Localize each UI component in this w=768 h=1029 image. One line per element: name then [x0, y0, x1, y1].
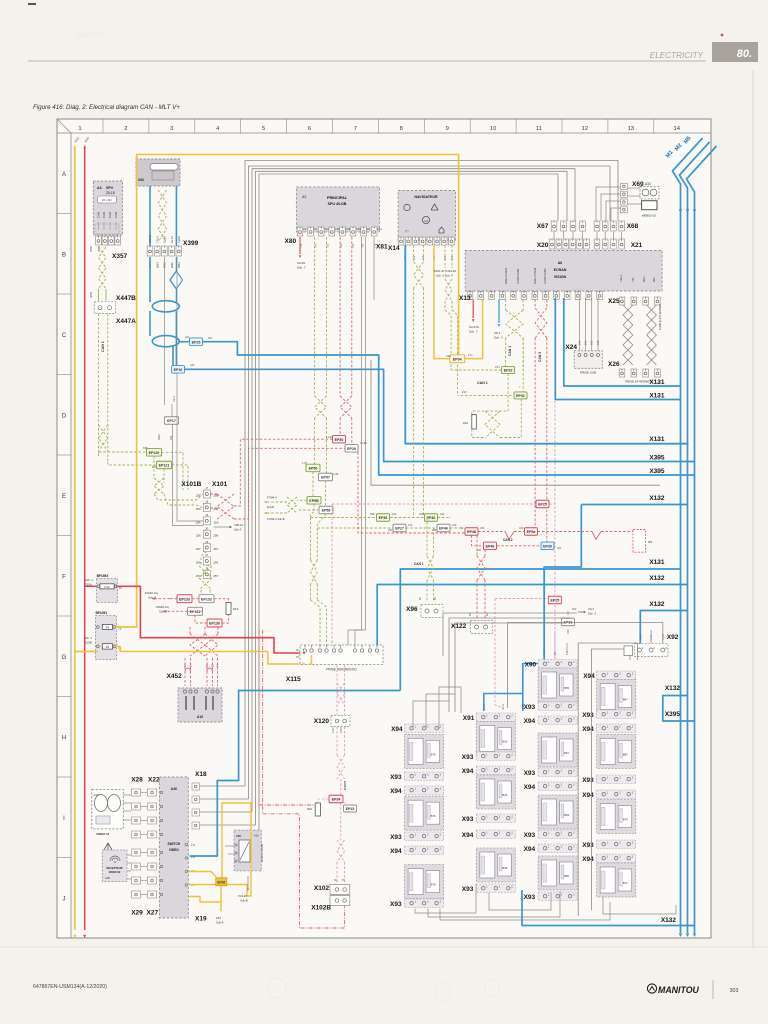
svg-text:B76: B76: [431, 814, 436, 818]
wire blue X132 upper route: [581, 504, 687, 506]
wire yellow through X65: [250, 832, 252, 869]
svg-text:B66: B66: [564, 874, 569, 878]
wire blue X395 route upper: [172, 347, 174, 366]
connector X21: [594, 239, 600, 249]
svg-text:Sch. 1: Sch. 1: [84, 636, 92, 640]
svg-text:EP133: EP133: [179, 597, 190, 601]
arrow K2-66: [299, 237, 301, 254]
svg-text:A6: A6: [558, 261, 563, 265]
monitor X65: [234, 830, 261, 871]
wire blue X132 from X92: [640, 611, 687, 645]
arrow blue X8-1: [498, 300, 500, 324]
svg-text:Sch. 8: Sch. 8: [148, 596, 156, 600]
svg-text:179: 179: [655, 497, 660, 501]
svg-text:B64: B64: [564, 813, 569, 817]
splice EP23p: [548, 596, 561, 604]
svg-text:X92: X92: [667, 634, 679, 641]
wire red into prise: [303, 652, 305, 654]
ECU A2 PRINCIPAL SPU 40-DB: [296, 187, 379, 232]
svg-text:3642: 3642: [157, 434, 161, 440]
svg-text:X22: X22: [148, 777, 160, 784]
svg-text:C18: C18: [345, 227, 350, 231]
svg-text:9: 9: [446, 126, 449, 132]
wire red from F44 to X115: [85, 585, 97, 587]
splice EP30b: [541, 542, 554, 550]
svg-text:A2: A2: [302, 195, 306, 199]
wires X67 to X20: [553, 231, 555, 239]
svg-text:X8-1: X8-1: [494, 331, 501, 335]
svg-text:EP25: EP25: [538, 503, 547, 507]
svg-text:K2-66: K2-66: [297, 261, 305, 265]
svg-text:EP23: EP23: [346, 807, 355, 811]
svg-text:A30: A30: [105, 876, 110, 880]
svg-text:WEB02-G2: WEB02-G2: [642, 214, 657, 218]
svg-text:6: 6: [308, 126, 311, 132]
svg-text:X132: X132: [665, 685, 681, 692]
svg-text:240: 240: [462, 390, 467, 394]
ECU A3 SPV 25-15: [93, 181, 122, 235]
connector X20: [549, 239, 555, 249]
svg-text:173: 173: [655, 395, 660, 399]
terminator R5: [633, 530, 646, 553]
svg-text:216: 216: [655, 438, 660, 442]
svg-text:Sch. 7: Sch. 7: [469, 330, 478, 334]
svg-text:X94: X94: [390, 788, 402, 795]
splice EP17: [165, 417, 179, 425]
connector X96: [421, 605, 443, 618]
svg-text:164: 164: [169, 435, 173, 440]
svg-text:257: 257: [196, 574, 201, 578]
svg-text:X204A-CA: X204A-CA: [145, 591, 158, 595]
svg-text:YD-: YD-: [631, 277, 635, 282]
svg-text:X68: X68: [627, 223, 639, 230]
gray interconnects relay bottom: [415, 884, 476, 913]
svg-text:20 ohm: 20 ohm: [102, 198, 113, 202]
svg-text:257: 257: [196, 547, 201, 551]
splice EP58: [319, 506, 333, 514]
svg-text:CAN: CAN: [108, 212, 112, 218]
svg-text:F9: F9: [106, 626, 110, 630]
svg-text:256: 256: [196, 534, 201, 538]
svg-text:X204A-CA: X204A-CA: [156, 605, 169, 609]
wire pink dash-dot harness pair: [258, 630, 260, 805]
svg-text:11: 11: [536, 126, 542, 132]
svg-text:Sch. 3: Sch. 3: [588, 612, 596, 616]
wires A6 to X24: [578, 298, 580, 351]
svg-text:Sch. 8: Sch. 8: [159, 610, 167, 614]
svg-text:164-2: 164-2: [173, 395, 176, 402]
wire green pair down to X96: [426, 518, 428, 557]
svg-text:X93: X93: [582, 842, 594, 849]
svg-text:7: 7: [354, 126, 357, 132]
svg-text:X93: X93: [524, 832, 536, 839]
svg-text:27A2: 27A2: [340, 727, 343, 733]
wires EP cluster to X101B: [162, 452, 184, 490]
svg-text:10: 10: [490, 126, 496, 132]
svg-text:EP57: EP57: [321, 476, 330, 480]
svg-text:X7344-4: X7344-4: [267, 496, 277, 500]
svg-text:4-34: 4-34: [650, 635, 653, 640]
wire gray parallel below blue: [371, 360, 660, 485]
svg-text:732: 732: [326, 243, 330, 248]
svg-text:RA6: RA6: [307, 807, 313, 811]
svg-text:X94: X94: [462, 832, 474, 839]
svg-text:CAN: CAN: [114, 212, 118, 218]
svg-text:X29: X29: [131, 910, 143, 917]
svg-text:CAN 2: CAN 2: [503, 538, 513, 542]
terminator RA6: [315, 803, 320, 816]
wire red pair down to X122: [476, 535, 478, 556]
gray wrap around relay column D: [578, 643, 637, 916]
svg-text:722: 722: [314, 243, 318, 248]
svg-text:12: 12: [582, 126, 588, 132]
wire blue X131 long line: [400, 569, 680, 691]
svg-text:1-196: 1-196: [360, 441, 367, 445]
svg-text:X93: X93: [390, 774, 402, 781]
connector X68: [594, 221, 600, 231]
svg-text:X102B: X102B: [311, 905, 331, 912]
svg-text:X94: X94: [582, 726, 594, 733]
svg-text:C: C: [62, 333, 67, 339]
svg-text:RD-: RD-: [652, 277, 656, 282]
relay column C: [538, 660, 577, 669]
svg-text:EP32: EP32: [504, 369, 513, 373]
svg-text:3059: 3059: [89, 291, 93, 298]
connector X25 pin row: [619, 297, 625, 305]
svg-text:B29: B29: [502, 793, 507, 797]
svg-text:SWITCH: SWITCH: [168, 842, 181, 846]
svg-text:B65: B65: [564, 686, 569, 690]
camera A32 VIDEO 01: [92, 789, 124, 829]
svg-text:AM: AM: [424, 219, 429, 223]
splice EP25: [536, 500, 549, 508]
svg-text:K101-37 K101-42: K101-37 K101-42: [434, 269, 456, 273]
svg-text:196: 196: [446, 354, 451, 358]
svg-text:C16: C16: [335, 227, 340, 231]
svg-text:RA4: RA4: [463, 421, 469, 425]
connector X92: [635, 644, 668, 657]
svg-text:EP34: EP34: [332, 798, 341, 802]
shield ellipse 2: [152, 336, 179, 347]
svg-text:X94: X94: [462, 768, 474, 775]
svg-text:X94: X94: [524, 784, 536, 791]
splice EP34: [329, 795, 343, 803]
splice EP40: [425, 514, 438, 522]
connector X24 PRISE USB: [574, 351, 602, 369]
svg-text:Figure 416: Diag. 2: Electrica: Figure 416: Diag. 2: Electrical diagram …: [33, 104, 180, 111]
svg-text:Sub-4: Sub-4: [216, 921, 224, 925]
svg-text:CAN 5: CAN 5: [343, 781, 347, 790]
svg-text:4-74: 4-74: [483, 704, 486, 709]
splice EP46: [437, 524, 450, 532]
arrow X7344-4: [297, 499, 307, 501]
svg-text:F51: F51: [216, 916, 221, 920]
gray video bus wires: [245, 161, 618, 787]
svg-text:429: 429: [655, 603, 660, 607]
svg-text:ELECTRICITY: ELECTRICITY: [650, 51, 704, 60]
wires gray X65: [225, 845, 234, 847]
svg-text:X93: X93: [390, 834, 402, 841]
svg-text:VIDEO 01: VIDEO 01: [96, 832, 110, 836]
svg-text:X93: X93: [462, 754, 474, 761]
svg-text:1-98: 1-98: [333, 472, 339, 476]
svg-text:104: 104: [392, 512, 397, 516]
svg-text:SPU 40-DB: SPU 40-DB: [328, 202, 347, 206]
wire green pair from X66: [158, 190, 166, 216]
wire gray from X92 to X91: [508, 623, 663, 709]
svg-text:191: 191: [583, 340, 587, 345]
svg-text:E: E: [62, 494, 66, 500]
footer page number: [712, 980, 714, 999]
terminator RA4 network: [472, 374, 508, 415]
svg-text:EP121: EP121: [159, 464, 170, 468]
svg-text:X93: X93: [390, 901, 402, 908]
svg-text:BFUM1: BFUM1: [96, 611, 108, 615]
svg-text:8: 8: [400, 126, 403, 132]
svg-text:X93: X93: [582, 712, 594, 719]
svg-text:EP29: EP29: [347, 447, 356, 451]
svg-text:X94: X94: [390, 848, 402, 855]
svg-text:J: J: [63, 897, 66, 903]
resistor R19: [226, 602, 231, 614]
svg-text:CAN 1: CAN 1: [477, 381, 488, 385]
splice EP26: [216, 878, 227, 886]
splice EP56: [306, 464, 320, 472]
scan corner mark: [28, 3, 36, 5]
svg-text:C10: C10: [324, 227, 329, 231]
splice EP36: [377, 514, 390, 522]
wire blue video feed: [190, 691, 401, 857]
wire blue X131 line A: [564, 298, 681, 386]
svg-text:D: D: [62, 414, 67, 420]
svg-text:C2: C2: [314, 227, 318, 231]
svg-text:EP15: EP15: [192, 340, 201, 344]
svg-text:X7344-3 Sub-B: X7344-3 Sub-B: [267, 517, 285, 521]
svg-text:X1200: X1200: [84, 641, 93, 645]
wire yellow from F6 to X115: [75, 651, 98, 653]
svg-text:SPV: SPV: [106, 186, 114, 190]
svg-text:EP30: EP30: [543, 544, 552, 548]
wire blue pair below X399 with twist: [149, 257, 151, 302]
svg-text:15A: 15A: [214, 520, 219, 524]
svg-text:103: 103: [408, 523, 413, 527]
svg-text:4-15: 4-15: [522, 704, 525, 709]
svg-text:EP46: EP46: [486, 544, 495, 548]
svg-text:838: 838: [143, 446, 148, 450]
svg-text:EP56: EP56: [309, 467, 318, 471]
svg-text:256: 256: [196, 561, 201, 565]
svg-text:X27: X27: [147, 910, 159, 917]
svg-text:947: 947: [655, 470, 660, 474]
svg-text:X357: X357: [112, 253, 128, 260]
splice EP33: [562, 618, 575, 626]
svg-text:BFUM3: BFUM3: [97, 574, 109, 578]
svg-text:X395: X395: [665, 711, 681, 718]
svg-text:EP132: EP132: [201, 597, 212, 601]
splice EP57: [319, 473, 333, 481]
svg-text:B78: B78: [431, 883, 436, 887]
wire green CAN1 pair from X357: [99, 247, 107, 268]
svg-text:303: 303: [730, 988, 739, 994]
svg-text:LOW CAN1: LOW CAN1: [516, 268, 520, 284]
svg-text:X101B: X101B: [181, 481, 201, 488]
scan watermark circles: [268, 978, 286, 998]
svg-text:EP31: EP31: [516, 394, 525, 398]
svg-text:433: 433: [655, 561, 660, 565]
connector X399: [147, 246, 153, 256]
svg-text:VIDEO 02: VIDEO 02: [109, 870, 121, 874]
svg-text:X93: X93: [524, 894, 536, 901]
wires video to X28: [123, 794, 131, 796]
svg-text:13: 13: [628, 126, 634, 132]
page tab 80: [712, 42, 758, 62]
wire blue X132 long line: [377, 585, 687, 646]
svg-text:A33: A33: [645, 182, 651, 186]
column band diagonal cell: [57, 119, 71, 133]
svg-text:HIGH CAN1: HIGH CAN1: [504, 267, 508, 284]
wire blue bottom X132: [522, 890, 695, 926]
svg-text:K2-67a: K2-67a: [469, 325, 479, 329]
svg-text:X447A: X447A: [116, 318, 136, 325]
wire pink dashed row E: [332, 503, 536, 505]
svg-text:F6: F6: [106, 645, 110, 649]
svg-text:X66: X66: [138, 178, 144, 182]
svg-text:X81: X81: [376, 244, 388, 251]
wire red supply vertical: [84, 146, 86, 930]
svg-text:X447B: X447B: [116, 295, 136, 302]
wire blue X90 drop: [543, 567, 545, 660]
svg-text:104: 104: [495, 365, 500, 369]
splice EP23: [344, 805, 357, 812]
svg-text:SHLD: SHLD: [177, 236, 181, 243]
svg-text:X90: X90: [525, 662, 537, 669]
svg-text:X93: X93: [462, 886, 474, 893]
svg-text:A36: A36: [171, 787, 177, 791]
svg-text:Sch-3: Sch-3: [234, 528, 242, 532]
connector X122: [471, 621, 493, 634]
gray interconnects relay top: [413, 701, 449, 729]
svg-text:X18: X18: [195, 771, 207, 778]
svg-text:3051: 3051: [97, 245, 101, 252]
svg-text:X122: X122: [451, 623, 467, 630]
svg-text:X120: X120: [314, 718, 330, 725]
connector X67: [551, 221, 557, 231]
wire red dashed CAN2 upper: [358, 452, 465, 533]
svg-text:B: B: [62, 253, 66, 259]
svg-text:192: 192: [590, 340, 594, 345]
svg-text:943: 943: [655, 457, 660, 461]
svg-text:Sub-B: Sub-B: [240, 899, 248, 903]
splice EP131: [188, 607, 203, 615]
svg-text:305: 305: [432, 528, 437, 532]
svg-text:X94: X94: [524, 846, 536, 853]
wire pink X90 pin2: [554, 634, 556, 659]
wire yellow supply vertical: [74, 146, 76, 930]
splice EP29: [345, 445, 358, 453]
svg-text:1: 1: [78, 126, 81, 132]
wire red dashed CAN2 lower: [472, 535, 484, 546]
wires pink down to X452: [190, 634, 205, 656]
svg-text:400: 400: [519, 526, 524, 530]
wires yellow video loops: [189, 872, 216, 878]
svg-text:647867EN-USM134(A-12/2020): 647867EN-USM134(A-12/2020): [33, 984, 107, 990]
svg-text:B79: B79: [623, 818, 628, 822]
wire blue M1 M2 M5 risers: [673, 138, 703, 933]
svg-text:YEL1: YEL1: [619, 274, 623, 282]
paper edge shadow: [752, 70, 754, 948]
svg-text:X93: X93: [582, 777, 594, 784]
svg-text:R5: R5: [648, 540, 652, 544]
svg-text:VISION: VISION: [554, 275, 567, 279]
svg-text:341: 341: [185, 335, 190, 339]
svg-text:K16: K16: [254, 834, 259, 838]
svg-text:CAN L: CAN L: [155, 235, 159, 243]
svg-text:103: 103: [452, 523, 457, 527]
svg-text:B45: B45: [502, 740, 507, 744]
svg-text:HIGH CAN2: HIGH CAN2: [533, 267, 537, 284]
svg-text:A32: A32: [94, 793, 100, 797]
svg-text:X9-1: X9-1: [588, 607, 594, 611]
svg-text:193: 193: [596, 340, 600, 345]
svg-text:LOW CAN2: LOW CAN2: [543, 268, 547, 284]
svg-text:PRISE DIAGNOSTIC: PRISE DIAGNOSTIC: [326, 668, 357, 672]
svg-text:C13: C13: [377, 227, 382, 231]
wire green horizontal upper: [311, 517, 377, 519]
svg-text:B71: B71: [623, 881, 628, 885]
svg-text:X94: X94: [582, 792, 594, 799]
arrow X28-21: [214, 526, 231, 528]
svg-text:PRINCIPAL: PRINCIPAL: [327, 196, 348, 200]
svg-text:X80: X80: [285, 238, 297, 245]
svg-text:CABLE ETHERNET: CABLE ETHERNET: [658, 303, 662, 330]
svg-text:X14: X14: [388, 245, 400, 252]
wire blue X395 route lower: [179, 341, 190, 343]
svg-text:3646: 3646: [170, 262, 174, 268]
svg-text:EP30: EP30: [335, 438, 344, 442]
svg-text:X13-26: X13-26: [238, 894, 247, 898]
svg-text:80.: 80.: [737, 48, 752, 60]
svg-text:4-34J: 4-34J: [662, 633, 665, 640]
svg-text:4-10: 4-10: [502, 704, 505, 709]
svg-text:PRISE USB: PRISE USB: [580, 371, 596, 375]
svg-text:173: 173: [655, 381, 660, 385]
svg-text:X67: X67: [537, 223, 549, 230]
splice EP121: [157, 461, 172, 469]
connector X69: [620, 183, 627, 189]
relay column D: [597, 671, 636, 680]
connector X357: [96, 236, 102, 245]
svg-text:212: 212: [421, 255, 425, 260]
splice EP120: [147, 449, 162, 457]
svg-text:EP130: EP130: [209, 622, 220, 626]
wire pink X91 pin2 feed: [495, 598, 548, 600]
svg-text:B61: B61: [564, 751, 569, 755]
connector X447B X447A: [94, 302, 115, 314]
svg-text:Sch. 1: Sch. 1: [85, 578, 93, 582]
svg-text:B75: B75: [431, 752, 436, 756]
svg-text:VIDEO: VIDEO: [169, 848, 179, 852]
wires green below X101B: [199, 566, 212, 590]
svg-text:Sch. 4 Sch. 4: Sch. 4 Sch. 4: [436, 274, 453, 278]
wire yellow F9 to loop: [114, 626, 136, 628]
splice EP46b: [484, 542, 497, 550]
wire pink from X13 to X90: [554, 300, 556, 596]
svg-text:EP25: EP25: [551, 599, 560, 603]
svg-text:G: G: [62, 655, 67, 661]
svg-text:EP36: EP36: [379, 516, 388, 520]
svg-text:F: F: [62, 575, 66, 581]
svg-text:X19: X19: [195, 916, 207, 923]
